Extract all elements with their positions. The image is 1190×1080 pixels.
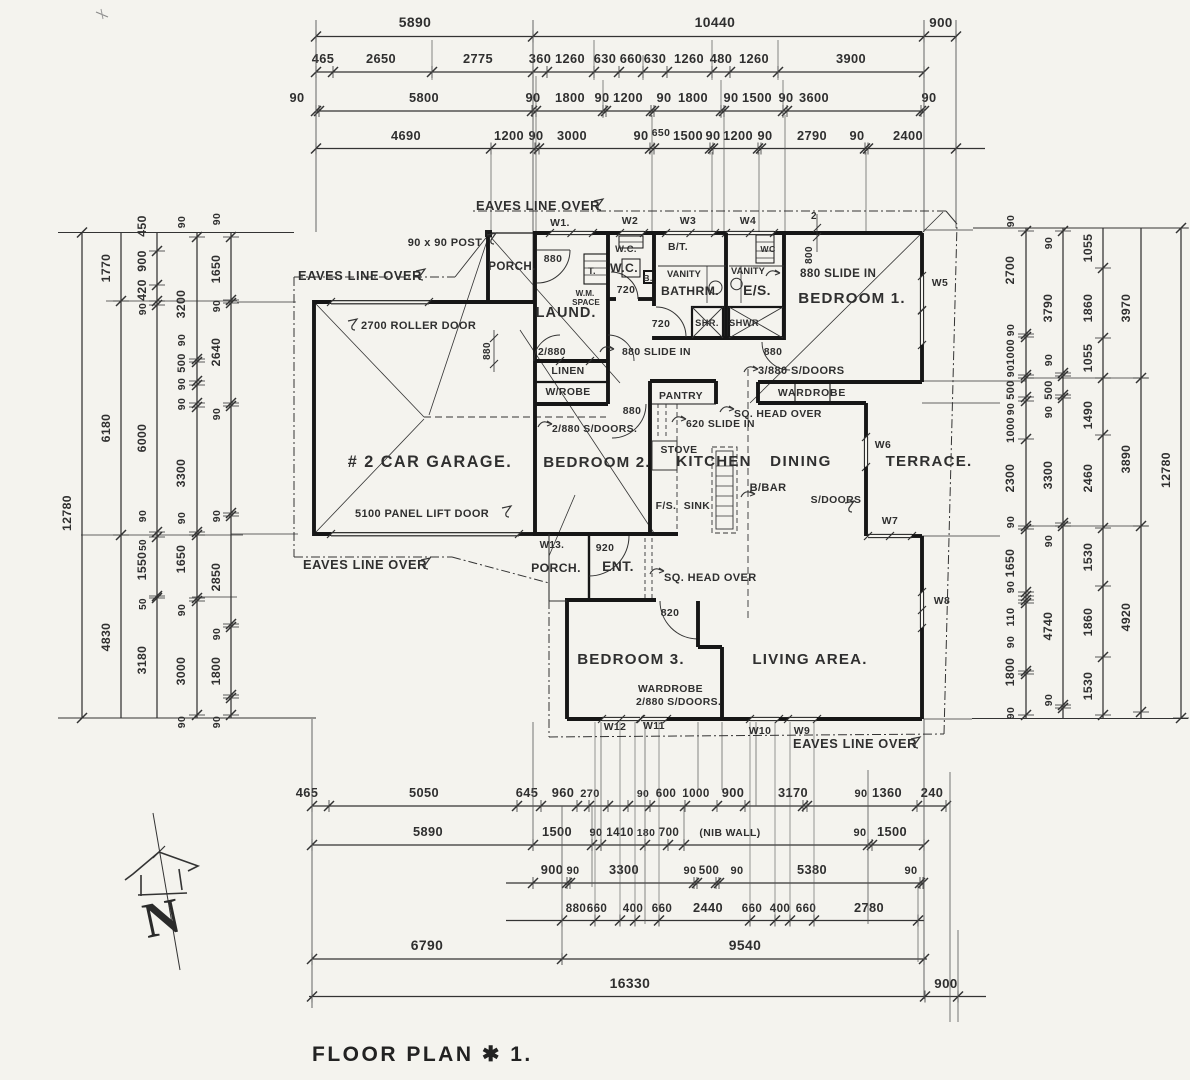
svg-text:90: 90 xyxy=(138,510,149,522)
svg-text:90: 90 xyxy=(212,628,223,640)
svg-text:720: 720 xyxy=(617,285,636,296)
svg-text:90: 90 xyxy=(637,789,649,800)
svg-text:90: 90 xyxy=(212,300,223,312)
svg-text:1360: 1360 xyxy=(872,785,902,800)
svg-text:SINK: SINK xyxy=(684,501,711,512)
svg-text:BATHRM.: BATHRM. xyxy=(661,284,719,298)
svg-text:620 SLIDE IN: 620 SLIDE IN xyxy=(686,419,755,430)
svg-text:50: 50 xyxy=(138,598,149,610)
svg-text:90: 90 xyxy=(683,865,696,877)
svg-text:880 SLIDE IN: 880 SLIDE IN xyxy=(800,267,876,280)
svg-text:BEDROOM 2.: BEDROOM 2. xyxy=(543,454,651,471)
svg-text:2300: 2300 xyxy=(1003,464,1017,493)
svg-text:800: 800 xyxy=(804,246,815,264)
svg-text:1650: 1650 xyxy=(209,255,223,284)
svg-text:900: 900 xyxy=(929,15,952,30)
svg-text:1500: 1500 xyxy=(673,128,703,143)
svg-text:1500: 1500 xyxy=(742,90,772,105)
svg-text:W7: W7 xyxy=(882,516,898,527)
svg-text:880: 880 xyxy=(482,342,493,360)
svg-text:5050: 5050 xyxy=(409,785,439,800)
svg-text:50: 50 xyxy=(138,539,149,551)
svg-text:4690: 4690 xyxy=(391,128,421,143)
svg-text:90: 90 xyxy=(853,827,866,839)
svg-text:645: 645 xyxy=(516,785,539,800)
svg-text:90: 90 xyxy=(1044,237,1055,249)
svg-text:3200: 3200 xyxy=(174,290,188,319)
svg-text:SHR.: SHR. xyxy=(695,318,719,328)
svg-text:660: 660 xyxy=(742,902,763,915)
svg-text:450: 450 xyxy=(135,215,149,237)
svg-text:3300: 3300 xyxy=(1041,461,1055,490)
svg-text:500: 500 xyxy=(176,353,188,373)
svg-text:90: 90 xyxy=(1006,403,1017,415)
svg-text:90: 90 xyxy=(1006,581,1017,593)
svg-text:1500: 1500 xyxy=(877,824,907,839)
svg-text:W12: W12 xyxy=(604,722,627,733)
svg-text:880 SLIDE IN: 880 SLIDE IN xyxy=(622,347,691,358)
svg-text:STOVE: STOVE xyxy=(660,445,697,456)
svg-text:6000: 6000 xyxy=(135,424,149,453)
svg-text:9540: 9540 xyxy=(729,937,762,953)
svg-text:EAVES LINE OVER: EAVES LINE OVER xyxy=(476,198,600,213)
svg-text:2640: 2640 xyxy=(209,338,223,367)
svg-text:1800: 1800 xyxy=(209,657,223,686)
svg-text:820: 820 xyxy=(661,608,680,619)
svg-text:2700: 2700 xyxy=(1003,256,1017,285)
svg-text:400: 400 xyxy=(770,902,791,915)
svg-text:465: 465 xyxy=(296,785,319,800)
svg-text:1800: 1800 xyxy=(1003,658,1017,687)
svg-text:90: 90 xyxy=(589,827,602,839)
svg-text:W10: W10 xyxy=(749,726,772,737)
svg-text:90: 90 xyxy=(1006,324,1017,336)
svg-text:960: 960 xyxy=(552,785,575,800)
svg-text:EAVES LINE OVER: EAVES LINE OVER xyxy=(298,268,422,283)
svg-text:4920: 4920 xyxy=(1119,603,1133,632)
svg-text:880: 880 xyxy=(544,254,563,265)
svg-text:480: 480 xyxy=(710,51,733,66)
svg-text:1000: 1000 xyxy=(1005,339,1017,365)
svg-text:LIVING AREA.: LIVING AREA. xyxy=(752,651,867,668)
svg-text:5890: 5890 xyxy=(399,14,432,30)
svg-text:1860: 1860 xyxy=(1081,608,1095,637)
svg-text:FLOOR PLAN ✱ 1.: FLOOR PLAN ✱ 1. xyxy=(312,1043,533,1066)
svg-text:W11: W11 xyxy=(643,721,665,732)
svg-text:2460: 2460 xyxy=(1081,464,1095,493)
svg-text:1000: 1000 xyxy=(682,787,709,800)
svg-text:# 2 CAR GARAGE.: # 2 CAR GARAGE. xyxy=(348,453,513,471)
svg-text:90: 90 xyxy=(1006,636,1017,648)
svg-text:650: 650 xyxy=(652,128,671,139)
svg-text:3170: 3170 xyxy=(778,785,808,800)
svg-text:720: 720 xyxy=(652,319,671,330)
svg-text:2780: 2780 xyxy=(854,900,884,915)
svg-text:W1.: W1. xyxy=(550,218,570,229)
svg-text:2850: 2850 xyxy=(209,563,223,592)
svg-text:2790: 2790 xyxy=(797,128,827,143)
svg-text:90: 90 xyxy=(633,128,648,143)
svg-text:900: 900 xyxy=(135,250,149,272)
svg-text:90: 90 xyxy=(1006,365,1017,377)
svg-text:90: 90 xyxy=(1006,707,1017,719)
svg-text:1260: 1260 xyxy=(739,51,769,66)
svg-text:90: 90 xyxy=(177,398,188,410)
svg-text:3300: 3300 xyxy=(609,862,639,877)
svg-text:110: 110 xyxy=(1005,608,1017,627)
svg-text:880: 880 xyxy=(623,406,642,417)
svg-text:90: 90 xyxy=(138,303,149,315)
svg-text:2700 ROLLER DOOR: 2700 ROLLER DOOR xyxy=(361,320,476,332)
svg-text:500: 500 xyxy=(1005,380,1017,400)
svg-text:12780: 12780 xyxy=(1159,452,1173,488)
svg-text:VANITY: VANITY xyxy=(667,269,702,279)
svg-text:2440: 2440 xyxy=(693,900,723,915)
svg-text:90: 90 xyxy=(177,716,188,728)
svg-text:90: 90 xyxy=(778,90,793,105)
svg-text:465: 465 xyxy=(312,51,335,66)
svg-text:90: 90 xyxy=(177,378,188,390)
svg-text:420: 420 xyxy=(135,279,149,301)
svg-text:WC: WC xyxy=(760,244,776,254)
svg-text:90: 90 xyxy=(904,865,917,877)
svg-text:270: 270 xyxy=(580,788,600,800)
svg-text:PORCH.: PORCH. xyxy=(488,260,536,273)
svg-text:W13.: W13. xyxy=(540,540,565,551)
svg-text:3300: 3300 xyxy=(174,459,188,488)
svg-text:90: 90 xyxy=(1044,406,1055,418)
svg-text:1650: 1650 xyxy=(1003,549,1017,578)
svg-text:630: 630 xyxy=(644,51,667,66)
svg-text:PANTRY: PANTRY xyxy=(659,391,703,402)
svg-text:1550: 1550 xyxy=(135,552,149,581)
svg-text:5380: 5380 xyxy=(797,862,827,877)
svg-text:B/T.: B/T. xyxy=(668,242,688,253)
svg-text:1055: 1055 xyxy=(1081,344,1095,373)
svg-text:E/S.: E/S. xyxy=(743,282,771,298)
svg-text:2/880 S/DOORS.: 2/880 S/DOORS. xyxy=(636,697,721,708)
svg-text:WARDROBE: WARDROBE xyxy=(778,388,846,399)
svg-text:3000: 3000 xyxy=(174,657,188,686)
svg-text:90: 90 xyxy=(1006,516,1017,528)
svg-text:90: 90 xyxy=(566,865,579,877)
svg-text:2: 2 xyxy=(811,211,817,222)
svg-text:LAUND.: LAUND. xyxy=(536,305,597,321)
svg-text:SQ. HEAD OVER: SQ. HEAD OVER xyxy=(734,409,822,420)
svg-text:4830: 4830 xyxy=(99,623,113,652)
svg-text:90: 90 xyxy=(1006,215,1017,227)
svg-text:B/BAR: B/BAR xyxy=(750,482,787,494)
svg-text:W.C.: W.C. xyxy=(610,261,638,275)
svg-text:1260: 1260 xyxy=(555,51,585,66)
svg-text:F/S.: F/S. xyxy=(656,501,677,512)
svg-text:660: 660 xyxy=(652,902,673,915)
svg-text:90: 90 xyxy=(1044,535,1055,547)
svg-text:880: 880 xyxy=(566,902,587,915)
svg-text:700: 700 xyxy=(659,826,680,839)
svg-text:90: 90 xyxy=(177,604,188,616)
svg-text:900: 900 xyxy=(722,785,745,800)
svg-text:1200: 1200 xyxy=(613,90,643,105)
svg-text:W3: W3 xyxy=(680,216,696,227)
svg-text:90: 90 xyxy=(723,90,738,105)
svg-text:12780: 12780 xyxy=(60,495,74,531)
svg-text:1650: 1650 xyxy=(174,545,188,574)
svg-text:EAVES LINE OVER: EAVES LINE OVER xyxy=(793,736,917,751)
svg-text:1000: 1000 xyxy=(1005,417,1017,443)
svg-text:920: 920 xyxy=(596,543,615,554)
svg-text:1490: 1490 xyxy=(1081,401,1095,430)
svg-text:3970: 3970 xyxy=(1119,294,1133,323)
svg-text:1200: 1200 xyxy=(723,128,753,143)
svg-text:1800: 1800 xyxy=(678,90,708,105)
svg-text:W.C.: W.C. xyxy=(615,244,637,254)
svg-text:3/880 S/DOORS: 3/880 S/DOORS xyxy=(758,365,845,377)
svg-text:B.: B. xyxy=(643,273,653,283)
svg-text:10440: 10440 xyxy=(695,14,736,30)
svg-text:660: 660 xyxy=(796,902,817,915)
svg-text:DINING: DINING xyxy=(770,453,832,470)
svg-text:W5: W5 xyxy=(932,278,948,289)
svg-text:5800: 5800 xyxy=(409,90,439,105)
svg-text:3000: 3000 xyxy=(557,128,587,143)
svg-text:90: 90 xyxy=(656,90,671,105)
svg-text:400: 400 xyxy=(623,902,644,915)
svg-text:W4: W4 xyxy=(740,216,756,227)
svg-text:W.M.: W.M. xyxy=(576,289,595,298)
svg-text:90: 90 xyxy=(757,128,772,143)
svg-text:90: 90 xyxy=(1044,694,1055,706)
svg-text:SQ. HEAD OVER: SQ. HEAD OVER xyxy=(664,572,757,584)
svg-text:3180: 3180 xyxy=(135,646,149,675)
svg-text:2775: 2775 xyxy=(463,51,493,66)
svg-text:90: 90 xyxy=(705,128,720,143)
svg-text:90 x 90 POST: 90 x 90 POST xyxy=(408,237,483,249)
svg-text:6180: 6180 xyxy=(99,414,113,443)
svg-text:PORCH.: PORCH. xyxy=(531,561,581,575)
svg-text:3600: 3600 xyxy=(799,90,829,105)
svg-text:BEDROOM 3.: BEDROOM 3. xyxy=(577,651,685,668)
svg-text:90: 90 xyxy=(1044,354,1055,366)
svg-text:90: 90 xyxy=(212,408,223,420)
svg-text:1530: 1530 xyxy=(1081,672,1095,701)
svg-text:1200: 1200 xyxy=(494,128,524,143)
svg-text:VANITY: VANITY xyxy=(731,266,766,276)
svg-text:(NIB WALL): (NIB WALL) xyxy=(699,828,760,839)
svg-text:1770: 1770 xyxy=(99,254,113,283)
svg-text:2400: 2400 xyxy=(893,128,923,143)
svg-text:1800: 1800 xyxy=(555,90,585,105)
svg-text:90: 90 xyxy=(594,90,609,105)
svg-text:W9: W9 xyxy=(794,726,810,737)
svg-text:3900: 3900 xyxy=(836,51,866,66)
svg-text:1055: 1055 xyxy=(1081,234,1095,263)
svg-text:900: 900 xyxy=(541,862,564,877)
svg-text:180: 180 xyxy=(637,828,656,839)
svg-text:880: 880 xyxy=(764,347,783,358)
svg-text:900: 900 xyxy=(934,976,957,991)
svg-text:16330: 16330 xyxy=(610,975,651,991)
svg-text:LINEN: LINEN xyxy=(551,366,584,377)
svg-text:500: 500 xyxy=(1043,380,1055,400)
svg-text:90: 90 xyxy=(212,213,223,225)
svg-text:ENT.: ENT. xyxy=(602,558,634,574)
svg-text:1260: 1260 xyxy=(674,51,704,66)
svg-text:660: 660 xyxy=(587,902,608,915)
svg-text:2/880: 2/880 xyxy=(538,347,566,358)
svg-text:360: 360 xyxy=(529,51,552,66)
svg-text:1500: 1500 xyxy=(542,824,572,839)
svg-text:5890: 5890 xyxy=(413,824,443,839)
svg-text:TERRACE.: TERRACE. xyxy=(886,453,973,470)
svg-text:3890: 3890 xyxy=(1119,445,1133,474)
svg-text:90: 90 xyxy=(212,510,223,522)
svg-text:90: 90 xyxy=(177,216,188,228)
svg-text:90: 90 xyxy=(730,865,743,877)
svg-text:630: 630 xyxy=(594,51,617,66)
svg-text:1530: 1530 xyxy=(1081,543,1095,572)
svg-text:SHWR: SHWR xyxy=(729,318,759,328)
svg-text:W/ROBE: W/ROBE xyxy=(545,387,590,398)
svg-text:2650: 2650 xyxy=(366,51,396,66)
svg-text:90: 90 xyxy=(854,788,867,800)
svg-text:EAVES LINE OVER: EAVES LINE OVER xyxy=(303,557,427,572)
svg-text:BEDROOM 1.: BEDROOM 1. xyxy=(798,290,906,307)
svg-text:W2: W2 xyxy=(622,216,638,227)
svg-text:90: 90 xyxy=(177,334,188,346)
svg-text:90: 90 xyxy=(177,512,188,524)
svg-text:W6: W6 xyxy=(875,440,891,451)
svg-text:90: 90 xyxy=(849,128,864,143)
svg-text:1860: 1860 xyxy=(1081,294,1095,323)
svg-text:90: 90 xyxy=(289,90,304,105)
svg-text:5100 PANEL LIFT DOOR: 5100 PANEL LIFT DOOR xyxy=(355,508,489,520)
svg-text:W8: W8 xyxy=(934,596,950,607)
svg-text:T.: T. xyxy=(588,266,596,276)
svg-text:4740: 4740 xyxy=(1041,612,1055,641)
svg-text:3790: 3790 xyxy=(1041,294,1055,323)
svg-text:90: 90 xyxy=(212,716,223,728)
svg-text:WARDROBE: WARDROBE xyxy=(638,684,703,695)
svg-text:660: 660 xyxy=(620,51,643,66)
svg-text:6790: 6790 xyxy=(411,937,444,953)
svg-text:500: 500 xyxy=(699,864,720,877)
svg-text:2/880 S/DOORS.: 2/880 S/DOORS. xyxy=(552,424,637,435)
